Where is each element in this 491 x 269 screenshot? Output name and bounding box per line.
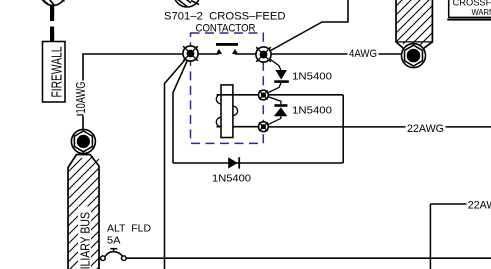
stud terminal on main bus xyxy=(402,44,426,68)
auxiliary bus bar xyxy=(68,155,99,269)
wire: 22AWG run from S2 xyxy=(263,126,405,128)
terminal 2 (big, right) xyxy=(256,47,271,62)
wire: breaker output xyxy=(126,257,491,259)
wire: contact to terminal 2 and on to 4AWG label xyxy=(235,53,348,55)
wire: 4AWG into stud xyxy=(379,53,404,55)
wire: 22AWG top right branch xyxy=(430,203,466,205)
wire: 10AWG lower stub into stud xyxy=(82,116,84,132)
svg-text:1N5400: 1N5400 xyxy=(292,70,332,82)
svg-text:WARN: WARN xyxy=(472,7,491,17)
wire: bottom diode run xyxy=(173,162,343,164)
firewall thick dashed wire xyxy=(50,5,54,43)
firewall penetration circle (top left, cut off) xyxy=(41,0,66,5)
wire B: terminal 1 down to bottom diode wire xyxy=(173,54,191,164)
svg-text:5A: 5A xyxy=(107,235,121,246)
svg-text:FIREWALL: FIREWALL xyxy=(49,47,66,98)
diode D3 1N5400 (bottom) xyxy=(228,157,240,168)
wire: right riser of diode loop xyxy=(342,95,344,163)
contactor dashed enclosure S701-2 xyxy=(191,33,264,143)
terminal S2 (small coil -) xyxy=(259,122,269,132)
svg-text:1N5400: 1N5400 xyxy=(292,104,332,116)
terminal S1 (small coil +) xyxy=(259,90,269,100)
diode D1 1N5400 xyxy=(274,70,289,83)
diode D1 leads xyxy=(263,55,281,96)
main bus bar (top right) xyxy=(396,0,432,49)
svg-text:22AWG: 22AWG xyxy=(468,199,491,211)
diode D2 1N5400 xyxy=(274,104,288,116)
svg-text:S701–2 CROSS–FEED: S701–2 CROSS–FEED xyxy=(164,11,286,23)
coil core xyxy=(221,85,233,138)
svg-text:CONTACTOR: CONTACTOR xyxy=(196,23,256,35)
stud terminal on aux bus xyxy=(71,129,95,153)
lamp circle (top centre, cut off) xyxy=(174,0,200,7)
label tick xyxy=(77,114,83,116)
wire: 22AWG continues to right edge xyxy=(446,126,491,128)
circuit breaker ALT FLD 5A xyxy=(101,249,127,261)
fixed contact left xyxy=(216,49,222,54)
wire: terminal 2 diagonal up to top edge xyxy=(264,0,349,55)
svg-text:1N5400: 1N5400 xyxy=(212,172,251,184)
terminal 1 (big, left) xyxy=(183,46,198,61)
wire A: terminal 1 down to bottom edge xyxy=(165,54,191,269)
diode D2 leads xyxy=(263,95,281,127)
firewall label box xyxy=(43,42,66,103)
contact bar xyxy=(216,43,238,46)
wire: 10AWG feeder (corner at top) xyxy=(83,54,219,81)
wire: coil bottom lead stubs xyxy=(217,126,264,128)
crossfeed warn box (top right, cut off) xyxy=(447,0,491,21)
fixed contact right xyxy=(232,49,238,54)
svg-text:22AWG: 22AWG xyxy=(407,123,444,135)
wire: coil top lead to S1 xyxy=(217,94,344,96)
svg-text:10AWG: 10AWG xyxy=(74,82,88,114)
bus label background xyxy=(78,207,91,269)
svg-text:ALT FLD: ALT FLD xyxy=(107,224,151,235)
wire: riser at x430 xyxy=(429,204,431,269)
coil loop arcs xyxy=(216,94,237,126)
svg-text:AUXILIARY BUS: AUXILIARY BUS xyxy=(79,212,93,269)
svg-text:4AWG: 4AWG xyxy=(349,48,377,60)
